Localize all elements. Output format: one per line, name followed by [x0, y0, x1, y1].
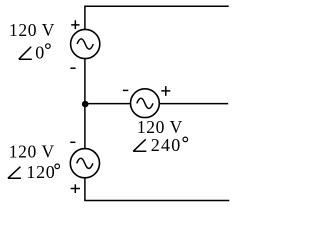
svg-text:120: 120: [26, 162, 55, 182]
wire: neutral node down to source V3: [84, 104, 86, 149]
V3 angle symbol: [8, 167, 21, 179]
wire: neutral node right to source V2: [85, 103, 131, 105]
AC source V2 (120 V at 240 deg): [131, 89, 160, 118]
V1 + polarity mark: [71, 20, 79, 29]
svg-text:120 V: 120 V: [9, 141, 55, 161]
wire: top rail from source V1 up and right to right edge: [85, 6, 229, 29]
V2 sine wave: [137, 98, 153, 108]
V1 angle symbol: [19, 47, 32, 60]
svg-text:240: 240: [151, 135, 182, 155]
V3 sine wave: [77, 158, 93, 168]
V3 + polarity mark: [71, 184, 80, 193]
V1 - polarity mark: [70, 67, 75, 69]
label V2 degree mark: [183, 137, 188, 142]
svg-text:0: 0: [35, 43, 45, 63]
svg-text:120 V: 120 V: [9, 20, 55, 40]
label V1 degree mark: [46, 44, 51, 49]
AC source V1 (120 V at 0 deg): [71, 29, 100, 58]
V3 - polarity mark: [70, 141, 75, 143]
wire: V1 bottom to neutral node: [84, 59, 86, 104]
neutral node junction dot: [82, 101, 89, 108]
AC source V3 (120 V at 120 deg): [70, 149, 99, 178]
V2 angle symbol: [133, 139, 146, 151]
wire: V2 right side to right edge: [159, 103, 228, 105]
V1 sine wave: [77, 39, 93, 49]
V2 + polarity mark: [161, 86, 170, 96]
wire: bottom rail from V3 down and right to right edge: [85, 178, 229, 200]
V2 - polarity mark: [123, 89, 128, 91]
label V3 degree mark: [55, 164, 60, 169]
